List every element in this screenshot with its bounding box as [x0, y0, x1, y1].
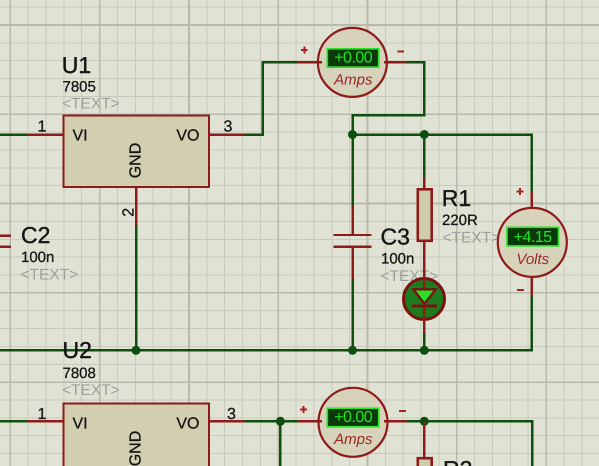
svg-text:3: 3 [227, 406, 236, 423]
voltmeter VM1 body [498, 208, 567, 277]
resistor R1 bottom pin [423, 240, 426, 280]
LED D1 cathode pin [423, 306, 426, 333]
LED D1 anode pin through body [423, 277, 426, 290]
svg-text:+0.00: +0.00 [334, 409, 373, 426]
wire: U2 VO pin 3 to ammeter AM2 + [245, 420, 298, 423]
wire: C3 bottom pin down to ground bus [351, 279, 354, 351]
wire: ground bus y=350.3 [0, 349, 532, 352]
svg-text:VI: VI [73, 128, 88, 145]
junction node: U2 output net branch [276, 417, 285, 426]
ammeter AM2 minus sign [399, 410, 406, 412]
wire: ammeter AM1 - right, down, left to node above C3 [353, 62, 425, 135]
svg-text:100n: 100n [21, 249, 54, 266]
ammeter AM1 plus sign [301, 47, 308, 54]
resistor R1 top pin [423, 177, 426, 190]
svg-text:2: 2 [121, 208, 138, 217]
wire: U1 VO pin 3 up and right to ammeter AM1 + [245, 62, 298, 135]
junction node: +5V net at R1 branch [420, 130, 429, 139]
svg-text:GND: GND [128, 431, 145, 466]
regulator U2 7808 body [64, 404, 210, 466]
voltmeter VM1 bottom pin stub [530, 273, 533, 296]
svg-text:1: 1 [38, 406, 47, 423]
svg-text:+0.00: +0.00 [334, 50, 373, 67]
ammeter AM2 plus sign [300, 406, 307, 413]
LED D1 triangle [413, 289, 435, 304]
ammeter AM2 - pin stub [384, 420, 407, 423]
ammeter AM1 + pin stub [298, 61, 322, 64]
voltmeter VM1 plus sign [517, 188, 524, 195]
wire: input net to U1 pin 1, y=134.5 [0, 133, 28, 136]
LED D1 body [404, 279, 445, 320]
svg-text:R2: R2 [443, 456, 472, 466]
wire: voltmeter - pin down to ground bus corner [530, 293, 533, 352]
capacitor C3 bottom pin [351, 248, 354, 279]
svg-text:C2: C2 [21, 222, 50, 248]
wire: U1 GND pin 2 down to ground bus [135, 226, 138, 351]
wire: +5V net horizontal from C3 node to voltmeter branch [353, 133, 532, 136]
wire: branch down from node on U2 output net [279, 421, 282, 466]
resistor R2 body (clipped at bottom) [418, 458, 432, 466]
U1 pin 2 stub (GND) [135, 187, 138, 226]
svg-text:1: 1 [38, 119, 47, 136]
regulator U1 7805 body [64, 116, 210, 188]
svg-text:GND: GND [128, 143, 145, 179]
svg-text:<TEXT>: <TEXT> [443, 230, 501, 247]
ammeter AM2 + pin stub [297, 420, 322, 423]
ammeter AM1 LCD display [327, 49, 378, 67]
ammeter AM2 LCD display [327, 408, 378, 426]
capacitor C3 top pin [351, 206, 354, 234]
capacitor C3 plates [334, 235, 372, 247]
svg-text:<TEXT>: <TEXT> [62, 96, 120, 113]
voltmeter VM1 LCD display [507, 227, 559, 246]
svg-text:7805: 7805 [63, 79, 96, 96]
resistor R1 body [418, 189, 432, 241]
junction node: ground bus at LED [420, 346, 429, 355]
LED D1 cathode bar [412, 305, 437, 308]
svg-text:Amps: Amps [333, 71, 373, 88]
junction node: +5V net at C3 branch [348, 130, 357, 139]
junction node: ground bus at U1 GND [132, 346, 141, 355]
wire: input net to U2 pin 1, y=421.3 [0, 420, 28, 423]
ammeter AM1 - pin stub [384, 61, 407, 64]
svg-text:C3: C3 [381, 223, 410, 249]
resistor R2 top pin [423, 421, 426, 459]
svg-text:R1: R1 [442, 185, 471, 211]
svg-text:U2: U2 [63, 337, 92, 363]
svg-text:+4.15: +4.15 [514, 229, 553, 246]
svg-text:Volts: Volts [516, 251, 549, 268]
capacitor C2 plates (partially off-screen) [0, 236, 11, 247]
svg-text:U1: U1 [62, 52, 91, 78]
voltmeter VM1 top pin stub [530, 191, 533, 212]
svg-text:Amps: Amps [333, 431, 373, 448]
voltmeter VM1 minus sign [517, 289, 524, 291]
svg-text:VO: VO [176, 416, 199, 433]
ammeter AM1 body [318, 28, 387, 97]
wire: +5V net down to voltmeter + pin [530, 133, 533, 192]
ammeter AM2 body [319, 388, 388, 457]
svg-text:100n: 100n [381, 250, 414, 267]
ammeter AM1 minus sign [397, 51, 404, 53]
U1 pin 1 stub [28, 133, 64, 136]
wire: C3 top branch down from node [351, 135, 354, 208]
svg-text:220R: 220R [442, 212, 478, 229]
wire: LED cathode down to ground bus [423, 333, 426, 351]
junction node: ground bus at C3 [348, 346, 357, 355]
svg-text:7808: 7808 [63, 365, 96, 382]
svg-text:VI: VI [73, 416, 88, 433]
wire: ammeter AM2 - right and down at x=532.2 [407, 421, 533, 466]
svg-text:<TEXT>: <TEXT> [62, 382, 120, 399]
junction node: ammeter AM2 - net at R2 branch [420, 417, 429, 426]
U1 pin 3 stub [209, 133, 245, 136]
wire: R1 top branch down from node [423, 135, 426, 179]
svg-text:VO: VO [176, 128, 199, 145]
U2 pin 3 stub [209, 420, 245, 423]
U2 pin 1 stub [28, 420, 64, 423]
svg-text:3: 3 [224, 119, 233, 136]
svg-text:<TEXT>: <TEXT> [21, 267, 79, 284]
